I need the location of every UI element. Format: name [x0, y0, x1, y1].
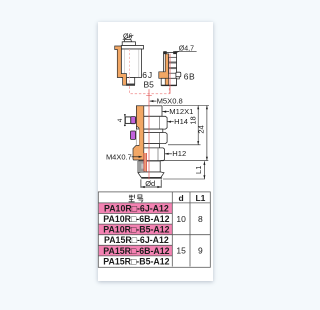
dim label ⌀6 — [123, 33, 134, 40]
parts table — [98, 192, 210, 267]
label H14 — [167, 117, 188, 126]
purple port 1 — [131, 117, 136, 124]
stem — [139, 144, 160, 148]
neck — [136, 129, 162, 132]
svg-text:24: 24 — [196, 125, 205, 133]
svg-text:15: 15 — [176, 246, 186, 256]
pink row 5 — [99, 245, 173, 256]
dim ⌀d — [141, 179, 161, 188]
svg-text:PA15R□-6B-A12: PA15R□-6B-A12 — [103, 246, 169, 256]
red section edges — [143, 153, 145, 171]
main body collar — [136, 106, 162, 117]
fitting 6J cylinder — [121, 49, 141, 78]
6B centerline — [169, 54, 171, 94]
orange M4 stem into bell — [144, 153, 147, 171]
fitting 6B lower hex — [161, 78, 176, 85]
svg-text:Ø4,7: Ø4,7 — [179, 46, 194, 53]
svg-text:L1: L1 — [194, 166, 203, 174]
port 1 white cap — [125, 117, 131, 124]
main section plate (orange) — [133, 106, 144, 160]
centerline over body — [148, 89, 150, 179]
dim 24 — [196, 106, 208, 161]
fitting 6J elbow body section (orange) — [115, 46, 127, 85]
header 型号 (drawn strokes) — [129, 195, 144, 202]
dim 18 — [188, 106, 199, 145]
svg-text:PA15R□-6J-A12: PA15R□-6J-A12 — [104, 235, 169, 245]
dim 4 — [117, 114, 126, 126]
centerline cross tick — [146, 95, 152, 97]
fitting 6B hex tab — [176, 72, 181, 77]
label M5X0.8 — [150, 97, 183, 106]
svg-text:M4X0.7: M4X0.7 — [106, 152, 132, 161]
svg-text:PA15R□-B5-A12: PA15R□-B5-A12 — [103, 256, 169, 266]
fitting 6J cap plate — [121, 46, 143, 50]
svg-text:10: 10 — [176, 214, 186, 224]
svg-text:M5X0.8: M5X0.8 — [157, 97, 183, 106]
model rows — [103, 203, 169, 266]
hex H12 — [139, 148, 165, 161]
svg-text:Ød: Ød — [145, 179, 155, 188]
dim L1 — [194, 161, 206, 179]
dim extension lines right — [163, 105, 209, 107]
fitting 6B thread end caps — [163, 51, 166, 54]
svg-text:PA10R□-B5-A12: PA10R□-B5-A12 — [103, 225, 169, 235]
svg-text:9: 9 — [198, 246, 203, 256]
svg-text:8: 8 — [198, 214, 203, 224]
hex 2 — [136, 133, 167, 144]
body left face patch — [136, 129, 139, 145]
fitting 6J collar ring — [122, 42, 135, 46]
svg-text:L1: L1 — [195, 193, 205, 203]
svg-text:18: 18 — [188, 116, 197, 124]
6J dashed centerline over cylinder — [129, 49, 131, 84]
svg-text:4: 4 — [117, 118, 124, 122]
bell bottom edge — [141, 177, 162, 178]
svg-text:H12: H12 — [172, 149, 186, 158]
dim label ⌀4,7 — [176, 46, 197, 53]
label H12 — [165, 149, 186, 158]
svg-text:H14: H14 — [174, 117, 188, 126]
fitting 6B section (orange) — [159, 54, 169, 86]
svg-text:PA10R□-6B-A12: PA10R□-6B-A12 — [103, 214, 169, 224]
nozzle bell flange — [138, 172, 164, 177]
hex H14 (upper) — [136, 116, 167, 129]
nozzle bell upper cylinder — [144, 161, 160, 172]
label M12X1 — [162, 107, 193, 116]
svg-text:B5: B5 — [143, 79, 154, 89]
svg-text:PA10R□-6J-A12: PA10R□-6J-A12 — [104, 203, 169, 213]
fitting 6J release collar — [124, 39, 132, 41]
pink row 1 — [99, 203, 173, 214]
pink row 3 — [99, 224, 173, 235]
projection dashed line from 6J view — [130, 49, 170, 94]
purple port 2 — [131, 131, 136, 139]
table grid — [98, 192, 210, 267]
label M4X0.7 — [106, 152, 142, 161]
white card panel — [98, 22, 213, 281]
fitting 6B barb ridges — [169, 57, 177, 62]
fitting 6B body — [164, 52, 177, 85]
svg-text:d: d — [178, 193, 183, 203]
svg-text:M12X1: M12X1 — [169, 107, 193, 116]
fitting 6J stem — [127, 78, 135, 85]
bell gray section (left half) — [138, 161, 144, 172]
svg-text:6B: 6B — [184, 71, 196, 81]
